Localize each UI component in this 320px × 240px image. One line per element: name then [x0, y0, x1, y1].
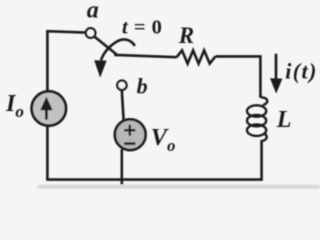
wire: node b down to voltage source Vo [122, 90, 124, 121]
current source I_o [32, 91, 66, 125]
wire top-left: from node a to left rail down to current source [47, 31, 86, 91]
switch throw arc t=0 [101, 39, 135, 60]
current arrow i(t) [270, 54, 282, 94]
wire: switch contact to resistor R [114, 55, 176, 57]
svg-text:R: R [178, 23, 194, 48]
inductor L [247, 97, 267, 141]
wire: switch arm from node a to top wire [94, 36, 117, 54]
wire: left rail below source, bottom rail, right rail up to inductor [47, 124, 261, 179]
voltage source V_o [115, 119, 146, 150]
svg-text:a: a [87, 0, 99, 24]
wire: resistor R to top-right corner, down to inductor L [215, 56, 260, 97]
wire: voltage source Vo down to bottom rail [121, 149, 124, 184]
svg-text:i(t): i(t) [285, 58, 317, 83]
svg-text:b: b [137, 73, 148, 98]
node a [86, 28, 96, 38]
switch arrowhead [94, 60, 106, 77]
svg-text:L: L [276, 107, 292, 133]
svg-text:t = 0: t = 0 [122, 17, 162, 39]
resistor R [177, 50, 216, 63]
node b [117, 81, 126, 90]
